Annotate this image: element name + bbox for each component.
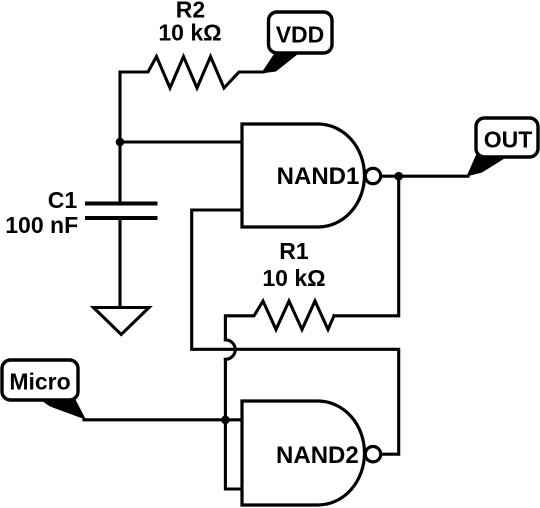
svg-text:OUT: OUT (484, 127, 533, 153)
svg-text:100 nF: 100 nF (5, 212, 78, 238)
svg-text:C1: C1 (48, 187, 78, 213)
svg-text:10 kΩ: 10 kΩ (262, 265, 325, 291)
svg-text:NAND2: NAND2 (276, 442, 359, 469)
svg-text:R1: R1 (279, 238, 309, 264)
svg-text:10 kΩ: 10 kΩ (158, 20, 221, 46)
svg-text:NAND1: NAND1 (277, 163, 360, 190)
svg-text:VDD: VDD (276, 22, 325, 48)
svg-text:Micro: Micro (9, 369, 70, 395)
